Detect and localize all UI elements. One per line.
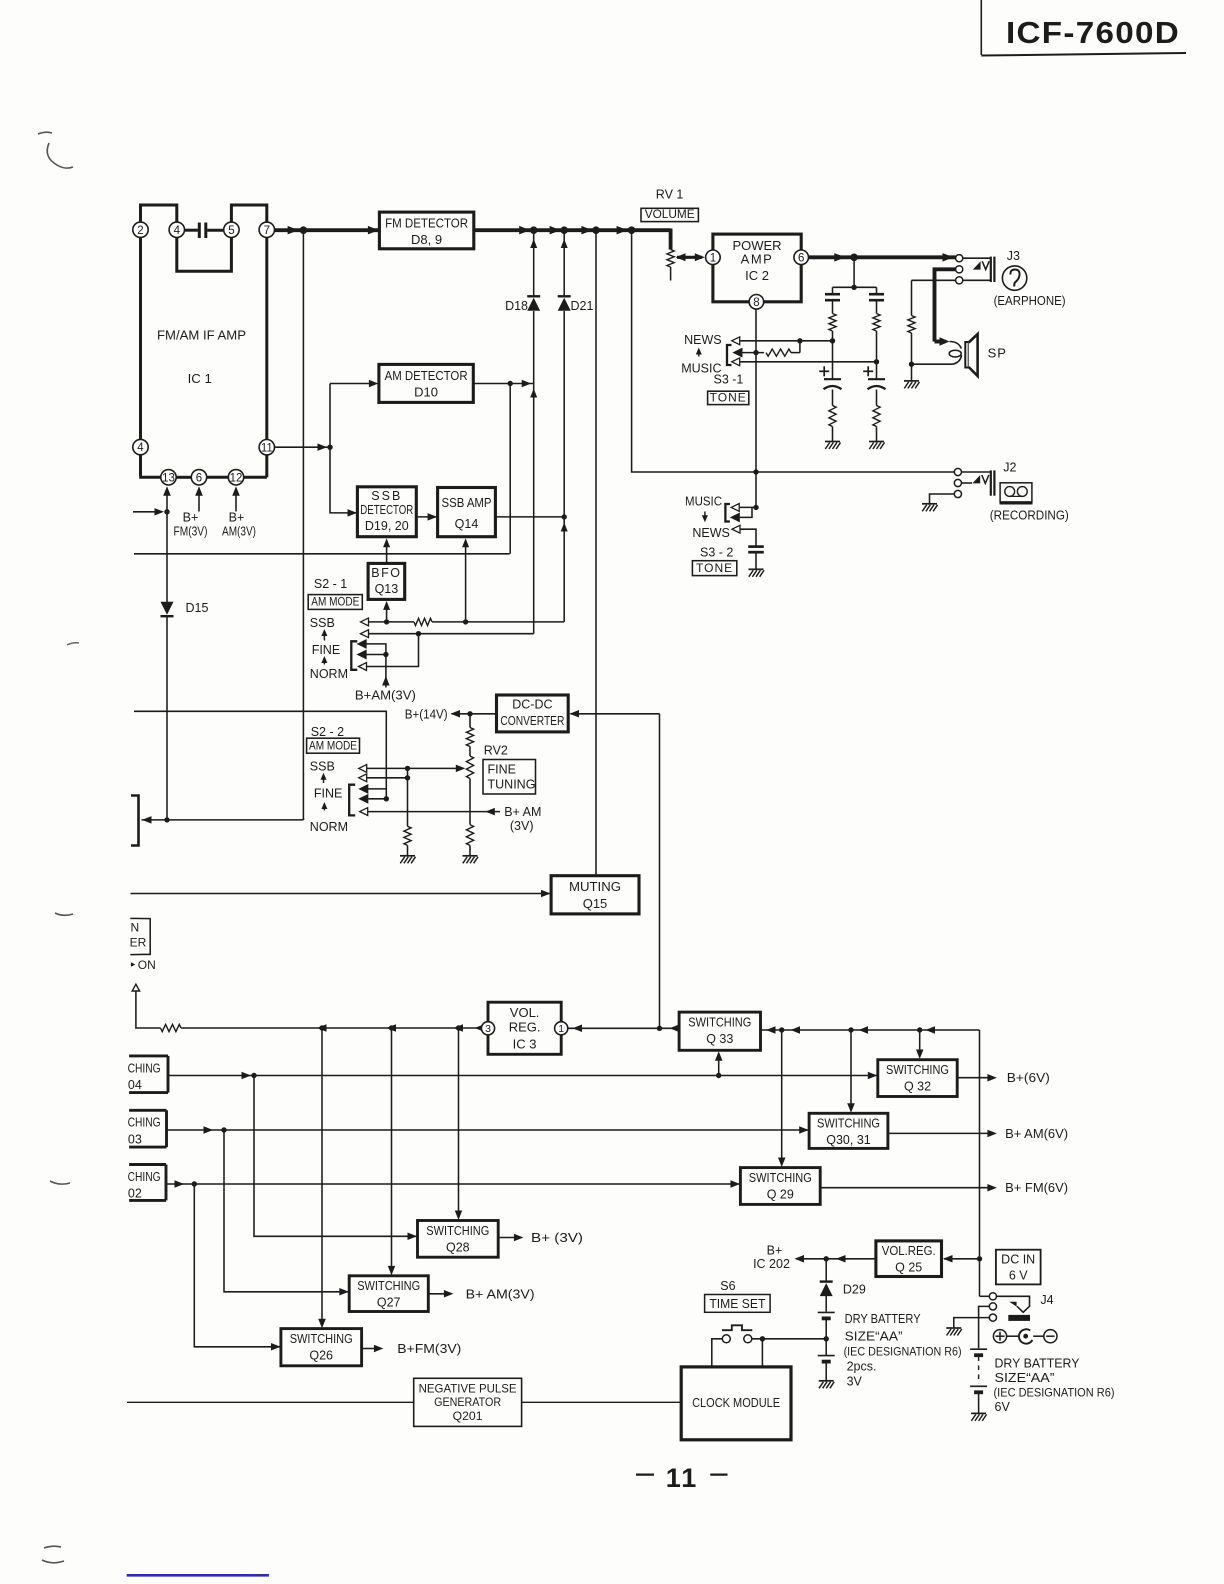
wire Q02 output rail bbox=[166, 1183, 740, 1185]
J3 jack body bars bbox=[963, 257, 991, 259]
node D29 top bbox=[824, 1256, 829, 1261]
IC1 pin 4 bbox=[169, 222, 184, 237]
arrow FINE-NORM S2-2 bbox=[323, 806, 325, 811]
svg-text:MUSIC: MUSIC bbox=[685, 495, 722, 509]
wire IF signal vertical from pin7 node bbox=[302, 230, 304, 820]
wire J3 contact2 to speaker (thick) bbox=[935, 269, 956, 341]
potentiometer RV1 volume bbox=[669, 229, 673, 250]
capacitor left branch top bbox=[832, 287, 834, 294]
page number bbox=[636, 1473, 654, 1475]
svg-text:CHING: CHING bbox=[128, 1170, 161, 1184]
svg-text:DC-DC: DC-DC bbox=[512, 698, 552, 712]
wire S2-2 second row bbox=[367, 777, 407, 779]
IC3 pin 3 bbox=[481, 1022, 494, 1035]
wire S2-2 B row bbox=[368, 798, 386, 800]
svg-text:(IEC DESIGNATION R6): (IEC DESIGNATION R6) bbox=[844, 1345, 962, 1359]
node Q27 feed bbox=[389, 1025, 394, 1030]
svg-text:NEGATIVE PULSE: NEGATIVE PULSE bbox=[419, 1382, 517, 1396]
node ON open triangle bbox=[132, 984, 139, 991]
svg-text:RV2: RV2 bbox=[484, 744, 508, 758]
wire Q26 top feed bbox=[321, 1028, 323, 1322]
jack J3 contact 2 bbox=[956, 266, 963, 273]
polarity symbol bbox=[993, 1330, 1006, 1343]
IC1 pin 6 bbox=[191, 470, 206, 485]
resistor speaker shunt bbox=[908, 316, 915, 334]
box MUTING Q15 bbox=[551, 876, 639, 914]
box SWITCHING Q26 bbox=[281, 1329, 362, 1366]
wire IF feed to S2-2 contacts bbox=[134, 711, 386, 799]
wire S2-1 B row bbox=[367, 654, 386, 656]
wire grounded resistor S2-2 bbox=[407, 768, 409, 826]
node Q30 feed bbox=[848, 1027, 853, 1032]
arrows on IC3 rail bbox=[317, 1024, 327, 1032]
battery 6V cell 2 bbox=[970, 1385, 987, 1387]
box SSB DETECTOR D19,20 bbox=[357, 487, 416, 537]
svg-text:Q15: Q15 bbox=[583, 896, 608, 911]
box SWITCHING Q29 bbox=[740, 1168, 820, 1205]
svg-text:Q30, 31: Q30, 31 bbox=[826, 1133, 871, 1147]
S3-1 NEWS contact bbox=[732, 337, 740, 345]
wire S2-2 A row bbox=[368, 788, 386, 790]
switch S6 pushbutton bbox=[722, 1325, 752, 1330]
IC1 pin 7 bbox=[259, 222, 274, 237]
svg-text:SSB: SSB bbox=[310, 616, 335, 630]
arrow MUSIC-NEWS S3-2 bbox=[704, 512, 706, 519]
svg-text:D8, 9: D8, 9 bbox=[411, 232, 442, 247]
svg-text:FM(3V): FM(3V) bbox=[174, 525, 208, 539]
ground J4 bbox=[946, 1327, 961, 1329]
svg-text:Q27: Q27 bbox=[377, 1296, 401, 1310]
capacitor S3-2 tone bbox=[748, 545, 764, 548]
svg-text:BFO: BFO bbox=[371, 566, 401, 580]
box SWITCHING 04 cut bbox=[129, 1054, 168, 1057]
wire SSB det to SSB amp bbox=[416, 516, 437, 518]
S2-1 contact B bbox=[358, 651, 366, 659]
svg-text:B+ (3V): B+ (3V) bbox=[531, 1230, 583, 1245]
svg-text:B+(6V): B+(6V) bbox=[1007, 1070, 1050, 1085]
potentiometer RV2 bbox=[466, 756, 473, 779]
svg-text:B+: B+ bbox=[229, 511, 245, 525]
svg-text:6V: 6V bbox=[995, 1400, 1011, 1414]
wire Q02 tap down to Q26 bbox=[194, 1184, 280, 1347]
box DC-DC CONVERTER bbox=[497, 695, 569, 732]
svg-text:Q13: Q13 bbox=[375, 582, 399, 596]
wire S2-1 SSB row with resistor bbox=[369, 621, 414, 623]
wire Q33 bottom feed bbox=[718, 1058, 720, 1076]
svg-text:NORM: NORM bbox=[310, 820, 348, 834]
jack J4 contact 1 bbox=[989, 1293, 996, 1300]
capacitor right branch top bbox=[876, 287, 878, 294]
jack J2 contact 2 bbox=[954, 479, 961, 486]
electrolytic capacitor right branch bbox=[876, 362, 878, 379]
node RV2 top bbox=[467, 711, 472, 716]
svg-text:D29: D29 bbox=[843, 1283, 866, 1297]
svg-text:FINE: FINE bbox=[314, 787, 342, 801]
svg-text:AM DETECTOR: AM DETECTOR bbox=[385, 368, 468, 383]
svg-text:Q 29: Q 29 bbox=[767, 1188, 794, 1202]
S2-2 SSB contact bbox=[359, 765, 367, 773]
wire BFO output to SSB detector bbox=[386, 546, 388, 563]
wire to connector bracket bbox=[142, 819, 304, 821]
wire Q201 to clock module bbox=[522, 1401, 682, 1403]
margin scan marks bbox=[38, 132, 73, 168]
wire S6 left to clock bbox=[712, 1339, 722, 1367]
svg-text:SWITCHING: SWITCHING bbox=[426, 1224, 489, 1238]
wire Q26 output B+FM(3V) bbox=[362, 1348, 380, 1350]
speaker SP symbol bbox=[965, 342, 968, 368]
node D15 join bbox=[164, 817, 169, 822]
wire D21 branch bbox=[563, 230, 565, 296]
svg-text:(IEC DESIGNATION R6): (IEC DESIGNATION R6) bbox=[994, 1386, 1115, 1400]
svg-text:CLOCK MODULE: CLOCK MODULE bbox=[692, 1395, 780, 1410]
wire J4 contact3 to ground bbox=[954, 1318, 990, 1328]
svg-text:DRY BATTERY: DRY BATTERY bbox=[995, 1357, 1081, 1371]
svg-text:Q26: Q26 bbox=[309, 1349, 333, 1363]
svg-text:SP: SP bbox=[988, 346, 1007, 361]
svg-text:7: 7 bbox=[264, 225, 270, 237]
wire BFO bottom to S2-1 bbox=[386, 608, 388, 622]
wire S3-2 music row bbox=[740, 506, 756, 508]
wire DC-DC input from switching rail bbox=[571, 713, 660, 715]
resistor RV2 lower bbox=[466, 825, 473, 846]
switch S3-1 movable bar bbox=[727, 345, 732, 365]
node S2-2 second join bbox=[405, 775, 410, 780]
connector bracket left bbox=[131, 796, 139, 846]
wire Q29 top feed bbox=[781, 1030, 783, 1161]
svg-text:B+FM(3V): B+FM(3V) bbox=[397, 1341, 461, 1356]
node pin7 junction bbox=[300, 226, 308, 234]
arrow SSB-FINE S2-1 bbox=[323, 633, 325, 641]
IC U IC2 POWER AMP box bbox=[713, 234, 801, 302]
svg-text:DC IN: DC IN bbox=[1001, 1253, 1035, 1267]
node D18 tap bbox=[530, 226, 538, 234]
svg-text:Q28: Q28 bbox=[446, 1241, 470, 1255]
wire D18 branch bbox=[533, 230, 535, 296]
label box TIME SET bbox=[705, 1295, 771, 1313]
wire J2 contact3 to ground bbox=[930, 494, 955, 503]
switch S2-1 movable bar bbox=[351, 641, 357, 670]
svg-text:ON: ON bbox=[138, 958, 156, 972]
svg-text:4: 4 bbox=[137, 442, 144, 454]
node S6 clock bbox=[760, 1336, 765, 1341]
svg-text:2: 2 bbox=[137, 225, 143, 237]
wire IC2 pin6 to J3 (thick) bbox=[809, 255, 956, 259]
node Q25 input bbox=[977, 1256, 982, 1261]
svg-text:12: 12 bbox=[230, 472, 243, 484]
svg-text:VOL.: VOL. bbox=[510, 1005, 540, 1020]
svg-text:FINE: FINE bbox=[312, 643, 340, 657]
wire SSB amp output to D21 line bbox=[495, 516, 564, 518]
svg-text:CHING: CHING bbox=[128, 1061, 161, 1075]
node Q32 feed bbox=[917, 1027, 922, 1032]
wire rail vertical to IC3 input bbox=[659, 714, 661, 1029]
box AM DETECTOR D10 bbox=[379, 364, 473, 402]
box SSB AMP Q14 bbox=[438, 488, 496, 537]
svg-text:8: 8 bbox=[753, 297, 759, 309]
node Q26 feed bbox=[319, 1025, 324, 1030]
IC1 pin 11 bbox=[259, 440, 274, 455]
svg-text:SSB AMP: SSB AMP bbox=[442, 496, 492, 510]
IC1 pin 13 bbox=[161, 470, 176, 485]
svg-text:B+ FM(6V): B+ FM(6V) bbox=[1005, 1180, 1068, 1195]
margin mark blue rule bbox=[127, 1574, 269, 1577]
wire Q25 input bbox=[944, 1258, 980, 1260]
wire B+AM(3V) rail bbox=[134, 553, 510, 555]
svg-text:J3: J3 bbox=[1007, 249, 1020, 263]
svg-text:SIZE“AA”: SIZE“AA” bbox=[845, 1330, 903, 1344]
svg-text:FM/AM IF AMP: FM/AM IF AMP bbox=[157, 328, 246, 343]
wire S2-1 NORM row bbox=[367, 634, 419, 667]
wire Q03 output rail bbox=[167, 1129, 809, 1131]
wire IC2 pin8 down bbox=[755, 309, 757, 352]
label box AM MODE S2-1 bbox=[308, 595, 362, 610]
box SWITCHING Q27 bbox=[349, 1276, 428, 1312]
wire Q28 top feed bbox=[458, 1028, 460, 1214]
wire Q04 output rail bbox=[168, 1075, 878, 1077]
node Q28 feed bbox=[456, 1025, 461, 1030]
svg-text:N: N bbox=[131, 921, 140, 935]
svg-text:6: 6 bbox=[196, 472, 202, 484]
arrow NEWS-MUSIC bbox=[698, 351, 700, 357]
svg-text:SWITCHING: SWITCHING bbox=[817, 1117, 880, 1131]
J2 plug symbol bbox=[972, 475, 980, 483]
svg-text:3: 3 bbox=[485, 1023, 491, 1035]
speaker voice coil loop bbox=[950, 342, 962, 349]
IC2 pin 1 bbox=[706, 250, 721, 265]
svg-text:1: 1 bbox=[558, 1023, 564, 1035]
svg-text:IC 1: IC 1 bbox=[188, 371, 212, 386]
resistor left branch bbox=[832, 301, 834, 314]
svg-text:TUNING: TUNING bbox=[488, 778, 536, 792]
node SSB amp out bbox=[562, 514, 567, 519]
wire S3-2 news row to capacitor bbox=[741, 529, 757, 546]
title box lines bbox=[980, 0, 982, 55]
svg-text:VOLUME: VOLUME bbox=[645, 207, 695, 221]
node wiper-resistor join bbox=[797, 338, 802, 343]
node pin13 feed bbox=[164, 509, 169, 514]
svg-text:4: 4 bbox=[174, 225, 181, 237]
svg-text:6: 6 bbox=[798, 252, 804, 264]
label box AM MODE S2-2 bbox=[307, 738, 360, 753]
capacitor between IC1 pins 4 and 5 bbox=[185, 229, 198, 232]
resistor ON rail bbox=[161, 1024, 182, 1031]
IC U IC1 FM/AM IF AMP outline bbox=[139, 238, 142, 440]
wire J4 contact2 to battery 6V bbox=[979, 1306, 990, 1348]
svg-text:S6: S6 bbox=[720, 1279, 735, 1293]
svg-text:S3 - 2: S3 - 2 bbox=[700, 546, 733, 560]
node D21 tap bbox=[560, 226, 568, 234]
IC1 pin 12 bbox=[228, 470, 243, 485]
wire pin8 node down to S3-2 bbox=[755, 353, 757, 508]
box NEGATIVE PULSE GENERATOR Q201 bbox=[414, 1378, 522, 1426]
S2-1 NORM contact bbox=[359, 663, 367, 671]
svg-text:SWITCHING: SWITCHING bbox=[886, 1063, 949, 1077]
wire B+AM3V supply arrow S2-1 bbox=[385, 655, 387, 688]
svg-text:NEWS: NEWS bbox=[692, 526, 730, 540]
wire S6 right to battery bbox=[752, 1338, 826, 1340]
svg-text:SWITCHING: SWITCHING bbox=[749, 1171, 812, 1185]
S3-1 wiper contact bbox=[734, 349, 742, 357]
resistor right branch bbox=[876, 301, 878, 314]
box SWITCHING Q30,31 bbox=[809, 1113, 888, 1148]
RV2 wiper arrow from S2-2 bbox=[408, 767, 462, 769]
ground J2 bbox=[922, 503, 937, 505]
svg-text:MUTING: MUTING bbox=[569, 879, 621, 894]
node DC-DC rail join bbox=[657, 1026, 662, 1031]
svg-text:SWITCHING: SWITCHING bbox=[357, 1279, 420, 1293]
J4 sleeve bar bbox=[1008, 1315, 1030, 1321]
IC1 notch between pins 4 and 5 bbox=[177, 238, 232, 272]
svg-text:SSB: SSB bbox=[371, 489, 402, 503]
svg-text:B+: B+ bbox=[767, 1244, 783, 1258]
IC1 pin 4 left bbox=[133, 439, 148, 454]
diode D29 bbox=[825, 1259, 827, 1281]
S2-2 second contact bbox=[359, 774, 367, 782]
svg-text:D18: D18 bbox=[505, 299, 528, 313]
electrolytic capacitor left branch bbox=[832, 341, 834, 379]
S3-2 NEWS contact bbox=[732, 525, 740, 533]
node fine join bbox=[416, 631, 421, 636]
svg-text:1: 1 bbox=[710, 252, 716, 264]
svg-text:SWITCHING: SWITCHING bbox=[688, 1016, 751, 1030]
node J2 tap S3-2 bbox=[753, 469, 758, 474]
box SWITCHING Q33 bbox=[679, 1012, 760, 1050]
svg-text:03: 03 bbox=[128, 1132, 142, 1146]
box CLOCK MODULE bbox=[681, 1367, 791, 1440]
svg-text:2pcs.: 2pcs. bbox=[847, 1360, 877, 1374]
svg-text:NORM: NORM bbox=[310, 667, 348, 681]
jack J3 contact 3 bbox=[956, 277, 963, 284]
svg-text:ICF-7600D: ICF-7600D bbox=[1006, 15, 1180, 50]
node AM det output bbox=[508, 381, 513, 386]
label box VOLUME bbox=[641, 208, 698, 221]
wire S2-2 SSB row bbox=[367, 767, 408, 769]
node pin11 split bbox=[327, 445, 332, 450]
wire Q29 output B+FM(6V) bbox=[820, 1187, 993, 1189]
label ON bbox=[131, 962, 135, 967]
svg-text:NEWS: NEWS bbox=[684, 333, 722, 347]
label box FINE TUNING bbox=[483, 760, 536, 795]
node S2-2 ssb join bbox=[405, 766, 410, 771]
svg-text:Q 32: Q 32 bbox=[904, 1080, 931, 1094]
svg-text:DETECTOR: DETECTOR bbox=[360, 503, 413, 517]
svg-text:SIZE“AA”: SIZE“AA” bbox=[995, 1371, 1055, 1385]
svg-text:B+ AM(3V): B+ AM(3V) bbox=[466, 1286, 535, 1301]
svg-text:FM DETECTOR: FM DETECTOR bbox=[385, 216, 468, 231]
svg-text:REG.: REG. bbox=[509, 1020, 541, 1035]
node BFO join bbox=[384, 619, 389, 624]
svg-text:CHING: CHING bbox=[128, 1116, 161, 1130]
wire S2-1 A to B bbox=[367, 644, 386, 655]
svg-text:B+(14V): B+(14V) bbox=[405, 707, 448, 721]
svg-text:S2 - 1: S2 - 1 bbox=[314, 577, 347, 591]
svg-text:RV 1: RV 1 bbox=[656, 188, 684, 202]
arrow SSB-FINE S2-2 bbox=[323, 777, 325, 784]
box BFO Q13 bbox=[368, 563, 405, 599]
svg-text:SSB: SSB bbox=[310, 760, 335, 774]
svg-text:FINE: FINE bbox=[488, 762, 516, 776]
node IC2 output junction bbox=[850, 253, 858, 261]
wire speaker return bbox=[912, 363, 953, 365]
diode D21 bbox=[558, 295, 571, 297]
node muting tap bbox=[592, 226, 600, 234]
svg-text:B+ AM: B+ AM bbox=[504, 805, 541, 819]
switch S2-2 movable bar bbox=[349, 785, 355, 816]
wire loop over pins 5-7 bbox=[231, 205, 266, 222]
IC2 pin 8 bbox=[749, 295, 764, 310]
svg-text:3V: 3V bbox=[847, 1375, 863, 1389]
svg-text:B+ AM(6V): B+ AM(6V) bbox=[1005, 1126, 1068, 1141]
svg-text:AM(3V): AM(3V) bbox=[222, 525, 256, 539]
wire muting input bbox=[131, 893, 550, 895]
svg-text:11: 11 bbox=[261, 442, 273, 454]
wire 6V rail vertical bbox=[979, 1030, 981, 1296]
S3-2 MUSIC contact bbox=[731, 504, 739, 512]
ground right branch bbox=[869, 441, 884, 443]
svg-text:IC 202: IC 202 bbox=[753, 1257, 790, 1271]
node Q02 tap bbox=[192, 1181, 197, 1186]
battery 6V dashed link bbox=[978, 1357, 980, 1384]
wire loop over pins 2-4 bbox=[141, 205, 177, 222]
wire IC3 pin1 input bbox=[568, 1027, 679, 1029]
wire AM detector output bbox=[473, 383, 533, 385]
svg-text:AM MODE: AM MODE bbox=[311, 595, 359, 609]
battery 6V cell 1 bbox=[970, 1348, 987, 1350]
node Q14 join bbox=[463, 619, 468, 624]
svg-text:5: 5 bbox=[228, 225, 234, 237]
wire Q32 top feed bbox=[919, 1030, 921, 1053]
battery 3V cell 2 bbox=[818, 1355, 835, 1357]
arrow FINE-NORM S2-1 bbox=[323, 660, 325, 665]
node MUSIC junction bbox=[874, 359, 879, 364]
arrow into pin6 bbox=[198, 494, 200, 511]
S2-1 contact A bbox=[358, 640, 366, 648]
svg-text:IC 3: IC 3 bbox=[513, 1037, 537, 1052]
S2-1 SSB contact bbox=[361, 618, 369, 626]
IC2 pin 6 bbox=[794, 250, 809, 265]
svg-text:(RECORDING): (RECORDING) bbox=[990, 508, 1069, 523]
node S2-2 AB bbox=[384, 796, 389, 801]
S2-2 contact B bbox=[360, 795, 368, 803]
S2-2 NORM contact bbox=[360, 808, 368, 816]
box VOL REG IC3 bbox=[488, 1002, 561, 1054]
RV1 wiper wire to IC2 pin1 (thick) bbox=[677, 256, 702, 259]
wire Q25 output B+ IC202 bbox=[796, 1258, 876, 1260]
box SWITCHING 02 cut bbox=[129, 1163, 166, 1166]
resistor left branch lower bbox=[829, 406, 836, 427]
svg-text:DRY BATTERY: DRY BATTERY bbox=[845, 1312, 922, 1326]
wire S6 node to clock bbox=[761, 1339, 763, 1367]
wire S3-1 NEWS to left branch bbox=[740, 340, 832, 342]
svg-text:(EARPHONE): (EARPHONE) bbox=[994, 293, 1066, 308]
S2-2 contact A bbox=[360, 785, 368, 793]
arrow up on D21 line bbox=[561, 523, 568, 532]
wire S2-1 second row to D18 line bbox=[369, 633, 534, 635]
box SWITCHING Q28 bbox=[418, 1221, 499, 1258]
node RC split bbox=[851, 285, 856, 290]
box SWITCHING 03 cut bbox=[129, 1109, 166, 1112]
svg-text:D15: D15 bbox=[186, 601, 209, 615]
svg-text:J2: J2 bbox=[1003, 461, 1016, 475]
J3 plug symbol bbox=[973, 261, 981, 269]
node S2-1 AB bbox=[383, 652, 388, 657]
arrow into pin12 bbox=[235, 494, 237, 511]
svg-text:6 V: 6 V bbox=[1009, 1269, 1028, 1283]
ground S3-2 bbox=[749, 568, 764, 570]
wire AM det node to B+ line bbox=[509, 384, 511, 554]
svg-text:B+: B+ bbox=[183, 511, 199, 525]
svg-text:ER: ER bbox=[130, 936, 147, 950]
